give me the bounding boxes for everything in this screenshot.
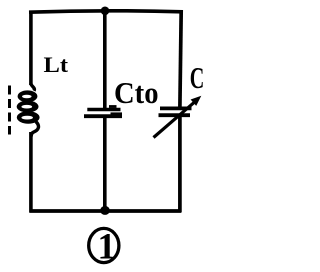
svg-text:1: 1 xyxy=(98,226,116,267)
svg-text:Lt: Lt xyxy=(44,52,69,77)
svg-text:C: C xyxy=(190,60,205,95)
svg-text:Cto: Cto xyxy=(114,76,159,110)
